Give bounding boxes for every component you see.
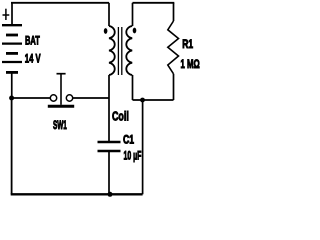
wire middle rail right (switch to primary bottom) bbox=[73, 97, 109, 99]
junction node capacitor-bottom rail bbox=[108, 192, 113, 197]
svg-text:C1: C1 bbox=[123, 133, 134, 147]
wire secondary bottom lead bbox=[132, 75, 134, 100]
switch SW1 left contact circle bbox=[50, 95, 56, 101]
battery BAT plus sign bbox=[3, 9, 10, 20]
wire battery negative lead bbox=[11, 72, 13, 98]
wire battery positive lead bbox=[11, 3, 13, 25]
wire middle rail left (junction to switch) bbox=[12, 97, 51, 99]
svg-text:14 V: 14 V bbox=[25, 52, 41, 66]
wire secondary top lead bbox=[132, 3, 134, 26]
switch SW1 actuator stem bbox=[60, 74, 62, 105]
wire top rail left segment (battery+ to primary) bbox=[11, 2, 109, 4]
wire secondary bottom rail to R1 bottom bbox=[133, 99, 174, 101]
wire primary bottom lead through middle rail to capacitor bbox=[108, 75, 110, 142]
switch SW1 right contact circle bbox=[66, 95, 72, 101]
resistor R1 zigzag body bbox=[168, 21, 179, 74]
svg-text:10 µF: 10 µF bbox=[124, 148, 142, 162]
battery BAT short plates bbox=[6, 35, 18, 72]
svg-text:1 MΩ: 1 MΩ bbox=[181, 57, 200, 71]
battery BAT long plates bbox=[2, 25, 22, 62]
resistor R1 top lead bbox=[173, 3, 175, 21]
wire top rail right segment (secondary to R1) bbox=[133, 2, 175, 4]
wire primary top lead bbox=[108, 3, 110, 26]
transformer secondary winding (right coil) bbox=[126, 26, 132, 75]
transformer primary phasing dot bbox=[104, 28, 108, 34]
wire capacitor bottom lead to bottom rail bbox=[108, 151, 110, 194]
switch SW1 actuator cap bbox=[57, 73, 66, 75]
wire left vertical (junction to bottom rail) bbox=[11, 98, 13, 194]
junction node secondary-bottom vertical bbox=[140, 98, 145, 103]
switch SW1 contact bar bbox=[48, 105, 74, 108]
svg-text:R1: R1 bbox=[182, 37, 193, 51]
resistor R1 bottom lead bbox=[173, 74, 175, 100]
junction node battery negative bbox=[9, 96, 14, 101]
transformer core lines bbox=[118, 27, 121, 75]
capacitor C1 top plate bbox=[98, 141, 121, 143]
svg-text:SW1: SW1 bbox=[53, 118, 67, 132]
svg-text:BAT: BAT bbox=[25, 34, 40, 48]
wire right vertical (junction down to bottom rail) bbox=[142, 100, 144, 194]
svg-text:Coil: Coil bbox=[112, 110, 129, 124]
transformer primary winding (left coil) bbox=[109, 26, 115, 75]
wire bottom rail bbox=[11, 193, 143, 195]
transformer secondary phasing dot bbox=[133, 28, 137, 34]
capacitor C1 bottom plate bbox=[98, 150, 121, 152]
